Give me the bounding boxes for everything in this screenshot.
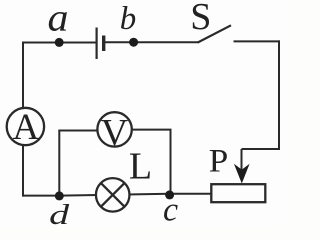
lamp cross <box>101 183 125 207</box>
svg-text:d: d <box>49 199 70 228</box>
wire voltmeter branch: d up, across to V <box>59 131 97 197</box>
rheostat P slider arrow <box>234 164 250 184</box>
lamp L circle <box>96 178 130 212</box>
switch S <box>198 25 232 42</box>
wire bottom (rheostat to d to corner) <box>23 194 212 196</box>
svg-text:c: c <box>163 191 178 228</box>
wire switch to top-right corner <box>234 40 281 42</box>
wire voltmeter right, down to c <box>133 130 171 195</box>
svg-text:V: V <box>101 112 129 154</box>
node c <box>165 190 174 199</box>
voltmeter circle <box>97 112 131 146</box>
node d <box>55 191 64 200</box>
svg-text:a: a <box>48 0 69 40</box>
battery long plate (positive) <box>95 28 97 60</box>
rheostat P body <box>211 184 265 202</box>
svg-text:P: P <box>209 144 229 180</box>
wire battery to switch pivot <box>105 41 199 43</box>
wire right vertical down <box>278 40 280 150</box>
node a <box>55 38 64 47</box>
battery short plate (negative) <box>102 36 105 52</box>
svg-text:L: L <box>129 145 152 187</box>
svg-text:A: A <box>13 107 40 148</box>
wire step left toward rheostat arrow <box>242 148 281 150</box>
wire top-left horizontal (corner to battery) <box>22 42 96 44</box>
ammeter A <box>7 108 44 145</box>
svg-text:b: b <box>120 1 137 37</box>
wire arrow shaft down <box>241 149 243 170</box>
wire left vertical (corner up through ammeter) <box>23 43 24 197</box>
node b <box>129 38 138 47</box>
svg-text:S: S <box>190 0 211 38</box>
